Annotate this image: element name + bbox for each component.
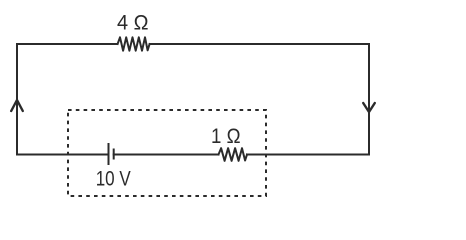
svg-text:10 V: 10 V xyxy=(96,167,132,191)
svg-text:1 Ω: 1 Ω xyxy=(211,124,241,148)
svg-text:4 Ω: 4 Ω xyxy=(117,11,149,35)
